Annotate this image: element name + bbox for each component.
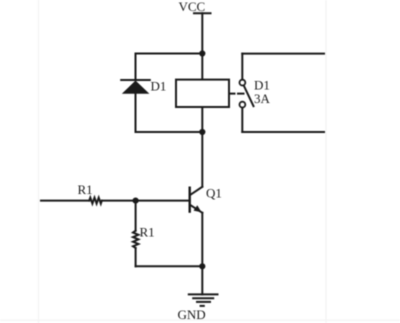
svg-text:R1: R1: [140, 225, 155, 240]
svg-text:R1: R1: [78, 182, 93, 197]
svg-text:Q1: Q1: [206, 186, 222, 201]
svg-text:VCC: VCC: [179, 0, 206, 14]
svg-text:3A: 3A: [254, 91, 271, 106]
svg-text:D1: D1: [151, 79, 167, 94]
